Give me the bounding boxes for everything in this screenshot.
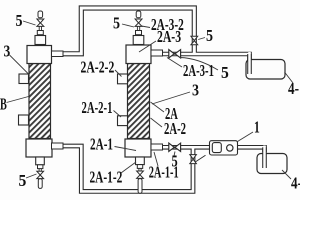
wire dip into flask 4-2: [262, 146, 267, 169]
svg-text:5: 5: [206, 27, 213, 45]
svg-text:2A: 2A: [165, 105, 178, 123]
valve 2A-3-1 (horizontal, top branch): [169, 50, 181, 58]
leader 5 top-left: [23, 21, 36, 25]
column 2A left tab upper 2A-2-2: [118, 74, 128, 84]
column B top port fitting: [52, 51, 64, 57]
svg-text:2A-1: 2A-1: [90, 135, 113, 154]
flask 4-2 (bottom right): [257, 154, 287, 174]
column 2A top port fitting 2A-3: [151, 50, 163, 56]
svg-text:2A-1-2: 2A-1-2: [90, 169, 123, 188]
wire dip into flask 4-1: [247, 52, 252, 75]
leader 2A-2: [151, 118, 163, 127]
svg-text:5: 5: [172, 153, 178, 171]
svg-text:2A-3: 2A-3: [157, 28, 181, 46]
column 2A bottom cap 2A-1: [125, 139, 151, 157]
column B bottom port fitting: [52, 143, 64, 149]
column B left tab lower: [19, 115, 29, 125]
valve 2A-1-1 / 5 (horizontal, bottom branch): [169, 143, 181, 151]
leader 2A-2-1: [114, 111, 122, 118]
valve 5 on column B top: [35, 11, 46, 45]
wire white cores: [63, 8, 265, 191]
column 2A left tab lower 2A-2-1: [118, 116, 128, 126]
leader 2A-1: [115, 147, 137, 151]
leader 4- top: [285, 72, 294, 83]
valve 5 on column B bottom: [36, 157, 45, 188]
column B top cap: [27, 46, 52, 64]
leader lines: [7, 21, 294, 179]
leader B: [7, 97, 29, 103]
valve 2A-3-2 on column 2A top: [133, 11, 144, 45]
svg-text:2A-2: 2A-2: [164, 121, 186, 139]
svg-text:4-: 4-: [291, 175, 300, 193]
leader 2A: [151, 102, 165, 112]
column B left tab upper: [19, 74, 29, 84]
leader 5 curve to valve 2A-3-1: [180, 58, 218, 71]
svg-text:2A-3-1: 2A-3-1: [183, 63, 214, 81]
leader 2A-3: [139, 41, 156, 52]
leader 2A-1-2: [121, 162, 136, 173]
column 2A top cap: [126, 45, 151, 64]
leader 5 mid-top: [122, 24, 134, 27]
svg-text:3: 3: [4, 43, 11, 60]
svg-text:4-: 4-: [288, 81, 299, 99]
svg-text:2A-2-1: 2A-2-1: [82, 100, 113, 118]
leader 1: [238, 132, 254, 142]
column 2A body (middle, hatched): [128, 64, 150, 139]
leader 2A-3-1: [167, 58, 182, 68]
svg-text:2A-2-2: 2A-2-2: [81, 59, 115, 77]
pump 1: [210, 141, 238, 155]
svg-text:3: 3: [192, 81, 199, 99]
svg-text:1: 1: [254, 119, 260, 138]
wire bottom branch: middle column bottom port through pump to flask 4-2: [163, 147, 265, 152]
leader 5 right-drop: [198, 38, 205, 40]
svg-text:B: B: [0, 95, 7, 113]
leader 5 bottom-mid: [174, 152, 175, 157]
svg-text:5: 5: [19, 173, 27, 190]
svg-text:5: 5: [16, 12, 23, 30]
svg-text:5: 5: [113, 14, 120, 32]
column B body (left, hatched): [29, 64, 51, 139]
svg-text:5: 5: [221, 65, 229, 82]
column 2A bottom port fitting: [151, 144, 163, 150]
leader 4- bottom: [282, 170, 291, 179]
leader 3 top-left: [10, 55, 30, 75]
wire top branch: middle column top port to flask 4-1: [163, 54, 250, 60]
riser valve 5 (on bottom loop riser): [190, 155, 206, 164]
flask 4-1 (top right): [246, 60, 285, 80]
leader 2A-1-1: [154, 152, 158, 166]
wire top loop: left column top port up and across to right drop: [63, 8, 194, 54]
leader 5 bottom-left: [26, 174, 37, 178]
leader 2A-3-2: [142, 26, 151, 28]
valve 2A-1-2 on column 2A bottom: [136, 157, 145, 193]
column B bottom cap: [26, 139, 52, 157]
leader 2A-2-2: [115, 70, 122, 77]
drop valve 5 (on top loop right drop): [191, 36, 198, 45]
leader 3 mid-right: [152, 92, 190, 104]
wire bottom loop: left column bottom port down and across to riser: [63, 146, 193, 191]
